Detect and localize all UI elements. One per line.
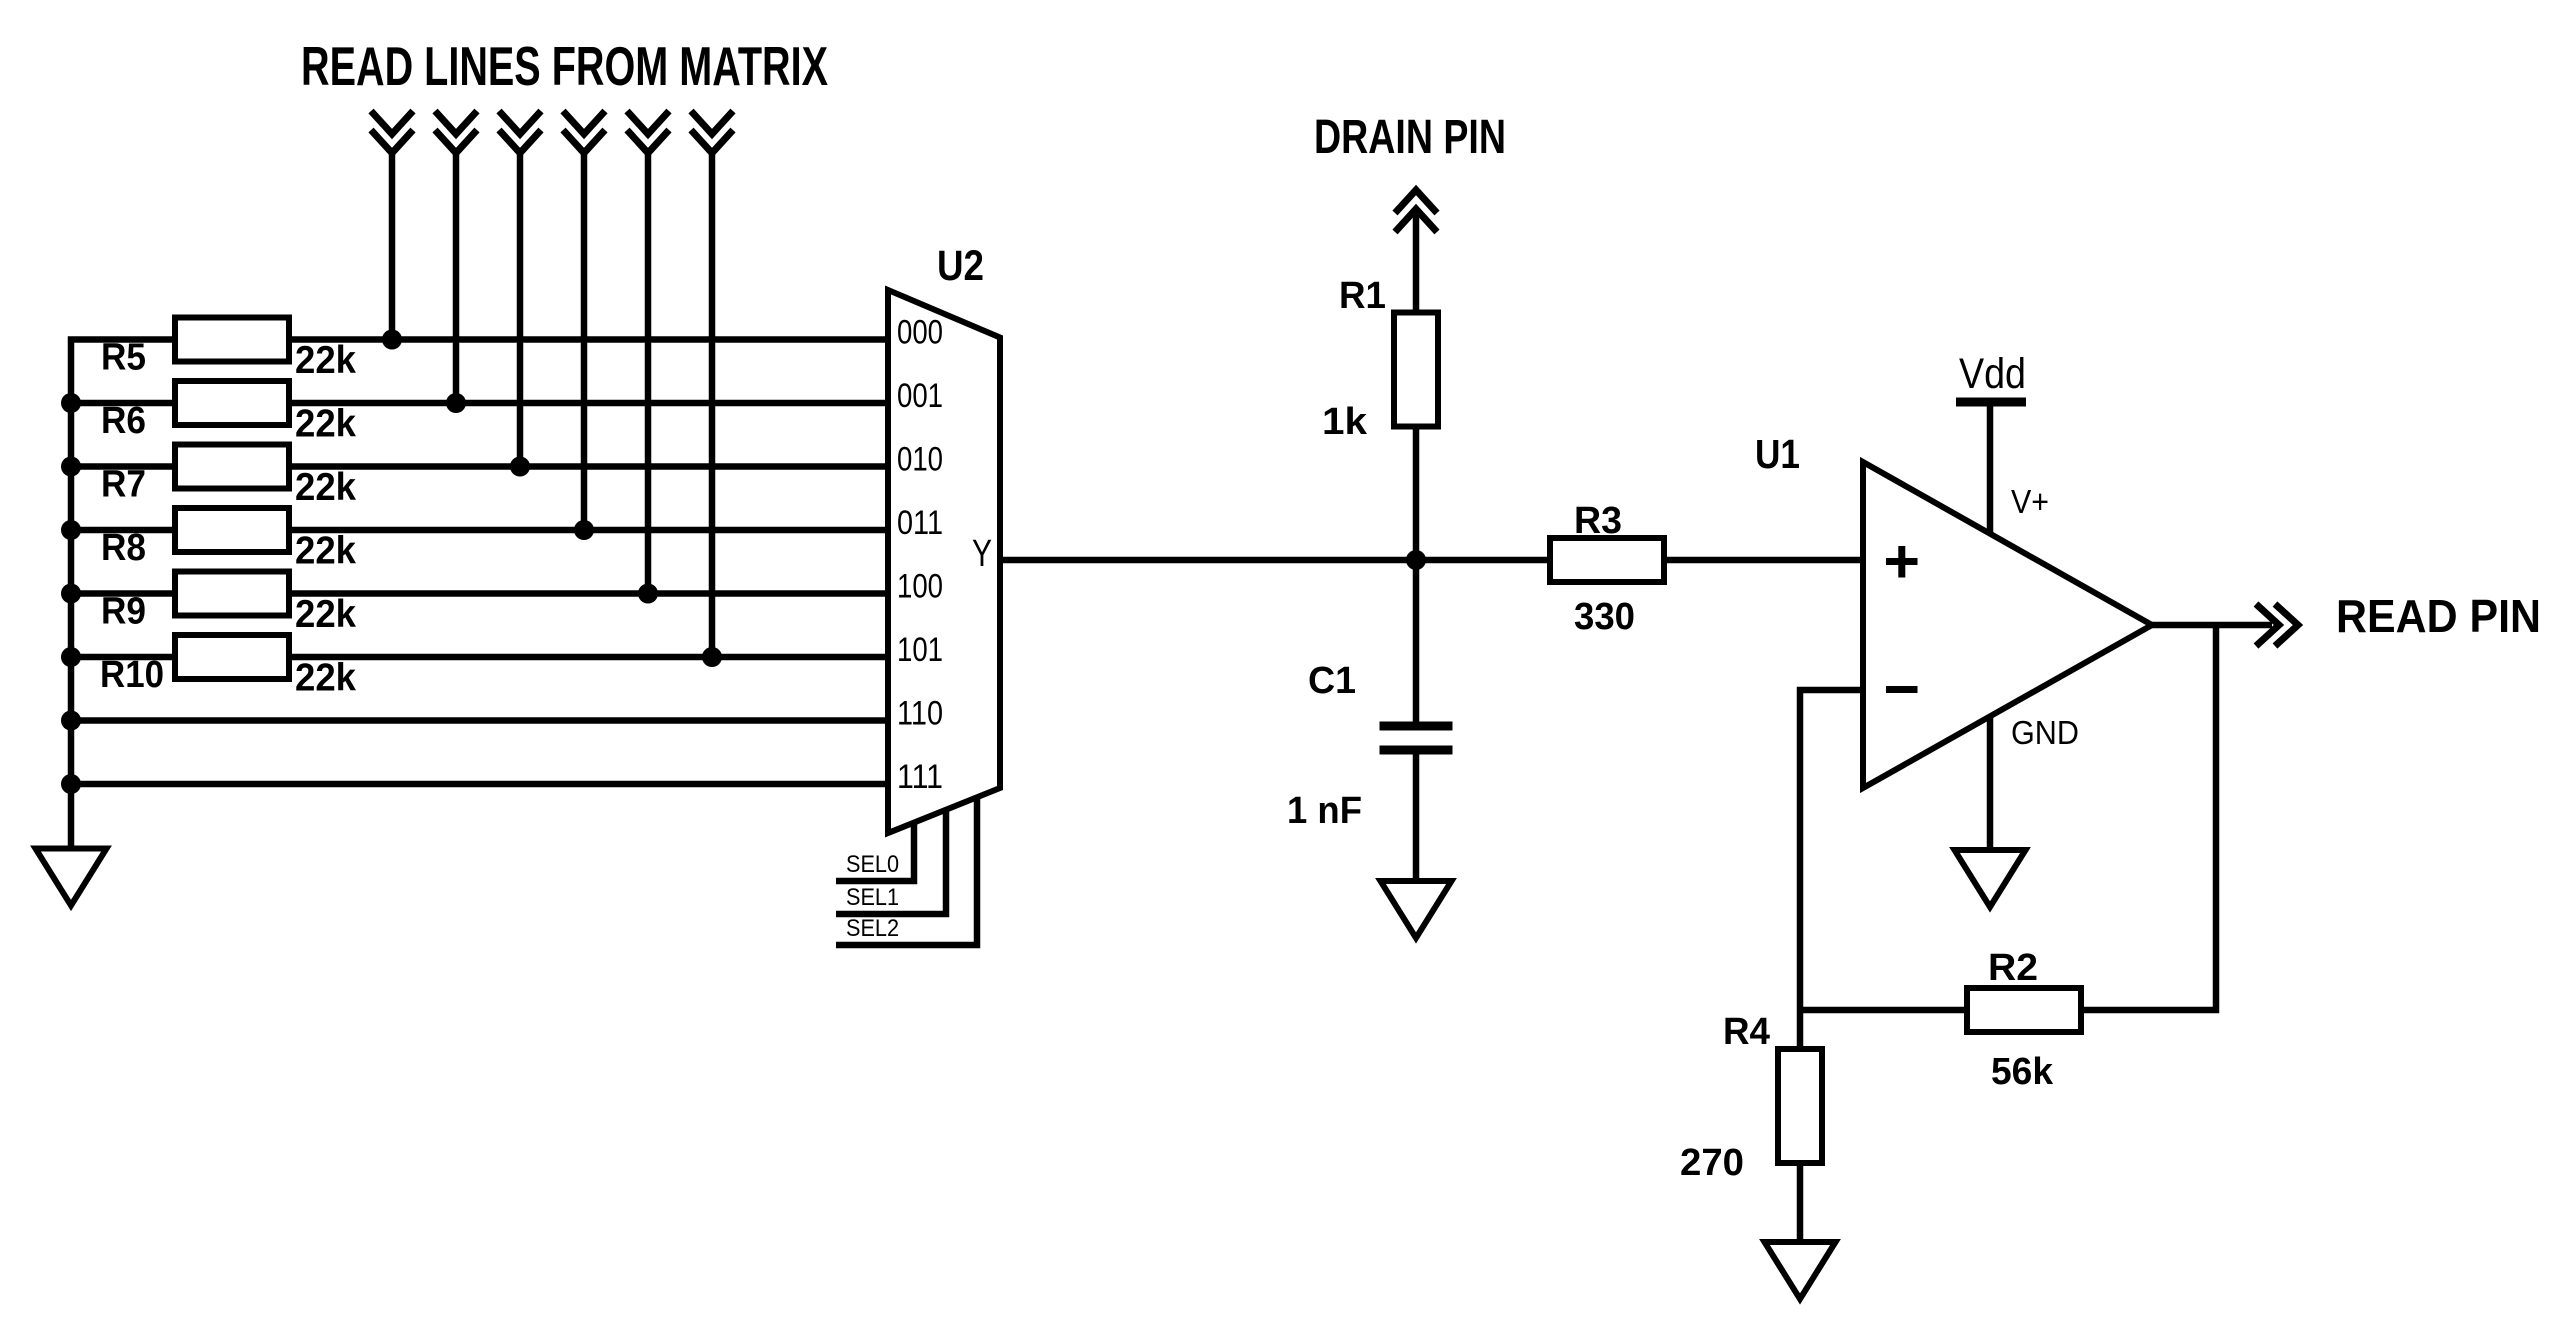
wire op-amp output down to R2 (right feedback): [2081, 625, 2216, 1010]
svg-text:U1: U1: [1755, 431, 1800, 477]
svg-text:SEL0: SEL0: [846, 851, 899, 878]
wire SEL0 (horizontal + stub to mux): [836, 822, 914, 881]
read line 4 connector (chevron) + wire: [563, 111, 605, 530]
svg-text:110: 110: [897, 695, 943, 733]
svg-text:011: 011: [897, 504, 943, 542]
wire mux Y output to node A: [1000, 557, 1550, 564]
op-amp + input marker: [1886, 546, 1918, 578]
resistor R7 body: [175, 445, 289, 489]
wire node B up to op-amp - input: [1800, 690, 1863, 1049]
wire node A up to R1: [1413, 425, 1420, 560]
junction node A (R1/C1/R3): [1406, 550, 1426, 570]
svg-text:READ LINES FROM MATRIX: READ LINES FROM MATRIX: [301, 35, 828, 97]
svg-text:R10: R10: [100, 654, 164, 696]
wire R7 to mux input 2: [289, 463, 888, 470]
wire bus to mux input 111: [71, 781, 888, 788]
wire op-amp output to read pin connector: [2152, 622, 2272, 629]
junction dot read line 6 / row 6: [702, 647, 722, 667]
svg-text:SEL2: SEL2: [846, 915, 899, 942]
wire bus to R10: [71, 654, 175, 661]
read line 2 connector (chevron) + wire: [435, 111, 477, 403]
DRAIN PIN connector (chevron up): [1395, 190, 1437, 232]
junction dot bus row 3: [61, 457, 81, 477]
wire R3 to op-amp + input: [1664, 557, 1863, 564]
svg-text:101: 101: [897, 631, 943, 669]
capacitor C1 plates: [1380, 726, 1453, 750]
ground symbol (left bus): [36, 849, 107, 906]
svg-text:330: 330: [1574, 596, 1635, 638]
svg-text:R4: R4: [1723, 1011, 1770, 1053]
svg-text:22k: 22k: [295, 657, 356, 700]
svg-text:22k: 22k: [295, 403, 356, 446]
resistor R8 body: [175, 508, 289, 552]
wire node A down to C1: [1413, 560, 1420, 726]
wire R2 left lead to node B: [1800, 1007, 1967, 1014]
wire R5 to mux input 0: [289, 336, 888, 343]
ground bus wire (left vertical) + R5 row corner: [71, 340, 175, 849]
read line 5 connector (chevron) + wire: [627, 111, 669, 594]
svg-text:R7: R7: [101, 464, 146, 506]
junction dot read line 2 / row 2: [446, 393, 466, 413]
junction dot read line 4 / row 4: [574, 520, 594, 540]
svg-text:R6: R6: [101, 400, 146, 442]
wire R4 to ground: [1797, 1163, 1804, 1242]
wire R1 to drain pin connector: [1413, 210, 1420, 314]
wire bus to mux input 110: [71, 717, 888, 724]
resistor R1 body: [1394, 313, 1438, 427]
wire R6 to mux input 1: [289, 400, 888, 407]
svg-text:R2: R2: [1988, 947, 2038, 989]
svg-text:000: 000: [897, 314, 943, 352]
svg-text:22k: 22k: [295, 593, 356, 636]
svg-text:V+: V+: [2011, 483, 2049, 520]
svg-text:SEL1: SEL1: [846, 884, 899, 911]
resistor R5 body: [175, 318, 289, 362]
ground symbol (R4): [1765, 1242, 1836, 1299]
junction dot bus row 8: [61, 774, 81, 794]
svg-text:010: 010: [897, 441, 943, 479]
junction dot bus row 5: [61, 584, 81, 604]
resistor R6 body: [175, 381, 289, 425]
svg-text:Y: Y: [972, 533, 992, 575]
junction dot read line 1 / row 1: [382, 330, 402, 350]
junction dot bus row 4: [61, 520, 81, 540]
svg-text:R3: R3: [1574, 500, 1622, 542]
multiplexer U2 body: [888, 290, 1000, 833]
READ PIN connector (chevron right): [2256, 604, 2298, 646]
junction dot bus row 6: [61, 647, 81, 667]
resistor R10 body: [175, 635, 289, 679]
svg-text:READ PIN: READ PIN: [2336, 590, 2541, 642]
svg-text:C1: C1: [1308, 660, 1356, 702]
svg-text:R5: R5: [101, 337, 146, 379]
resistor R4 body: [1778, 1049, 1822, 1163]
svg-text:1 nF: 1 nF: [1287, 790, 1362, 832]
junction dot bus row 2: [61, 393, 81, 413]
op-amp - input marker: [1886, 686, 1918, 693]
svg-text:100: 100: [897, 568, 943, 606]
svg-text:22k: 22k: [295, 530, 356, 573]
svg-text:R1: R1: [1339, 275, 1386, 317]
wire op-amp GND pin to ground: [1987, 716, 1994, 850]
resistor R3 body: [1550, 538, 1664, 582]
wire C1 to ground: [1413, 750, 1420, 881]
wire bus to R6: [71, 400, 175, 407]
junction dot read line 3 / row 3: [510, 457, 530, 477]
junction dot bus row 7: [61, 711, 81, 731]
svg-text:111: 111: [897, 758, 943, 796]
read line 6 connector (chevron) + wire: [691, 111, 733, 657]
wire R8 to mux input 3: [289, 527, 888, 534]
wire R9 to mux input 4: [289, 590, 888, 597]
junction dot read line 5 / row 5: [638, 584, 658, 604]
svg-text:R8: R8: [101, 527, 146, 569]
wire bus to R9: [71, 590, 175, 597]
wire op-amp V+ pin to Vdd: [1987, 402, 1994, 534]
svg-text:DRAIN PIN: DRAIN PIN: [1314, 111, 1506, 164]
ground symbol (C1): [1381, 881, 1452, 938]
svg-text:22k: 22k: [295, 466, 356, 509]
svg-text:270: 270: [1680, 1142, 1744, 1184]
wire bus to R8: [71, 527, 175, 534]
svg-text:1k: 1k: [1322, 401, 1368, 443]
resistor R9 body: [175, 572, 289, 616]
svg-text:22k: 22k: [295, 339, 356, 382]
resistor R2 body: [1967, 988, 2081, 1032]
Vdd power rail bar: [1956, 398, 2026, 407]
ground symbol (op-amp U1): [1955, 850, 2026, 907]
wire SEL1 (horizontal + stub to mux): [836, 809, 946, 914]
svg-text:Vdd: Vdd: [1959, 350, 2026, 398]
svg-text:GND: GND: [2011, 714, 2079, 751]
svg-text:56k: 56k: [1991, 1051, 2054, 1093]
wire bus to R7: [71, 463, 175, 470]
svg-text:001: 001: [897, 377, 943, 415]
read line 3 connector (chevron) + wire: [499, 111, 541, 467]
op-amp U1 body: [1863, 462, 2152, 788]
wire SEL2 (horizontal + stub to mux): [836, 797, 977, 945]
svg-text:U2: U2: [937, 242, 984, 290]
svg-text:R9: R9: [101, 591, 146, 633]
wire R10 to mux input 5: [289, 654, 888, 661]
read line 1 connector (chevron) + wire: [371, 111, 413, 340]
